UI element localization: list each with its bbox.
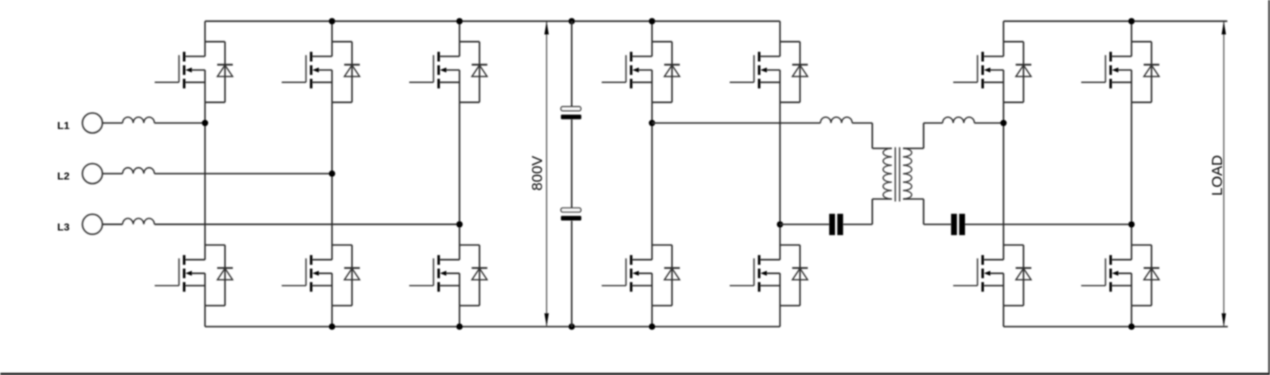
wire: primary top to transformer [852, 123, 892, 148]
transistor Q1 with body diode (AFE leg 1 high-side) [155, 42, 233, 103]
wire L1 to inductor [102, 122, 122, 124]
transistor Q3 with body diode (AFE leg 2 high-side) [282, 42, 360, 103]
wire L2 phase to AFE leg 2 [154, 173, 332, 175]
transistor Q10 with body diode (full-bridge leg 2 low-side) [730, 245, 808, 306]
svg-text:L2: L2 [57, 171, 69, 183]
junction top rail / full-bridge leg1 [649, 18, 655, 24]
capacitor Cr resonant (primary) [829, 214, 843, 235]
transistor Q8 with body diode (full-bridge leg 1 low-side) [602, 245, 680, 306]
junction bottom rail / AFE leg2 [329, 323, 335, 329]
inductor input filter phase L2 [123, 168, 155, 174]
top DC rail (AFE + full-bridge) [205, 20, 780, 22]
junction output leg2 midpoint [1128, 221, 1134, 227]
junction full-bridge leg2 midpoint [777, 221, 783, 227]
capacitor C1 (DC link upper) [561, 107, 581, 120]
junction bottom rail / output leg2 [1128, 323, 1134, 329]
figure border bottom [0, 373, 1270, 375]
wire: primary cap to transformer [843, 199, 892, 224]
wire: AFE leg 2 vertical [331, 21, 333, 326]
inductor input filter phase L3 [123, 218, 155, 224]
inductor Ls (secondary side) [943, 117, 975, 123]
AC source L3 [82, 214, 102, 234]
svg-text:L1: L1 [57, 120, 69, 132]
junction bottom rail / AFE leg3 [456, 323, 462, 329]
junction bottom rail / full-bridge leg1 [649, 323, 655, 329]
transformer T1 primary winding [883, 148, 892, 199]
junction L3-leg [456, 221, 462, 227]
junction top rail / AFE leg2 [329, 18, 335, 24]
wire L2 to inductor [102, 173, 122, 175]
wire: primary HF link top [652, 122, 820, 124]
wire: output bridge leg 1 vertical [1003, 21, 1005, 326]
svg-text:800V: 800V [529, 156, 546, 191]
LOAD dimension arrow [1223, 22, 1225, 326]
wire: output bridge leg 2 vertical [1131, 21, 1133, 326]
wire L3 phase to AFE leg 3 [154, 223, 459, 225]
inductor input filter phase L1 [123, 117, 155, 123]
transistor Q6 with body diode (AFE leg 3 low-side) [409, 245, 487, 306]
800V bus dimension arrow [546, 22, 548, 326]
inductor Lr resonant (primary) [820, 117, 852, 123]
transistor Q13 with body diode (output bridge leg 2 high-side) [1081, 42, 1159, 103]
svg-text:L3: L3 [57, 221, 69, 233]
junction bottom rail / DC-link cap branch [569, 323, 575, 329]
bottom DC rail (AFE + full-bridge) [205, 326, 780, 328]
capacitor Cs (secondary blocking) [951, 214, 965, 235]
transistor Q9 with body diode (full-bridge leg 2 high-side) [730, 42, 808, 103]
wire: transformer secondary bottom lead [903, 199, 951, 224]
junction top rail / output leg2 [1128, 18, 1134, 24]
capacitor C2 (DC link lower) [561, 208, 581, 221]
transformer T1 secondary winding [903, 148, 912, 199]
junction L1-leg [202, 120, 208, 126]
wire: transformer secondary top lead [903, 123, 943, 148]
junction top rail / DC-link cap branch [569, 18, 575, 24]
wire L3 to inductor [102, 223, 122, 225]
wire: full-bridge leg 2 vertical [779, 21, 781, 326]
transistor Q14 with body diode (output bridge leg 2 low-side) [1081, 245, 1159, 306]
wire: AFE leg 1 vertical [204, 21, 206, 326]
wire: AFE leg 3 vertical [459, 21, 461, 326]
transformer T1 core [895, 147, 899, 201]
wire L1 phase to AFE leg 1 [154, 122, 205, 124]
wire: secondary cap to output bridge [965, 223, 1132, 225]
wire: full-bridge leg 1 vertical [651, 21, 653, 326]
transistor Q2 with body diode (AFE leg 1 low-side) [155, 245, 233, 306]
AC source L1 [82, 113, 102, 133]
transistor Q12 with body diode (output bridge leg 1 low-side) [953, 245, 1031, 306]
wire: DC-link capacitor branch [571, 21, 573, 326]
figure border right [1268, 0, 1270, 374]
junction top rail / AFE leg3 [456, 18, 462, 24]
junction full-bridge leg1 midpoint [649, 120, 655, 126]
junction L2-leg [329, 170, 335, 176]
transistor Q5 with body diode (AFE leg 3 high-side) [409, 42, 487, 103]
top rail (output bridge to load) [1004, 20, 1228, 22]
transistor Q11 with body diode (output bridge leg 1 high-side) [953, 42, 1031, 103]
AC source L2 [82, 164, 102, 184]
svg-text:LOAD: LOAD [1209, 155, 1226, 196]
wire: secondary top to output bridge [974, 122, 1003, 124]
transistor Q4 with body diode (AFE leg 2 low-side) [282, 245, 360, 306]
bottom rail (output bridge to load) [1004, 326, 1228, 328]
wire: primary HF link bottom [780, 223, 829, 225]
junction output leg1 midpoint [1000, 120, 1006, 126]
transistor Q7 with body diode (full-bridge leg 1 high-side) [602, 42, 680, 103]
